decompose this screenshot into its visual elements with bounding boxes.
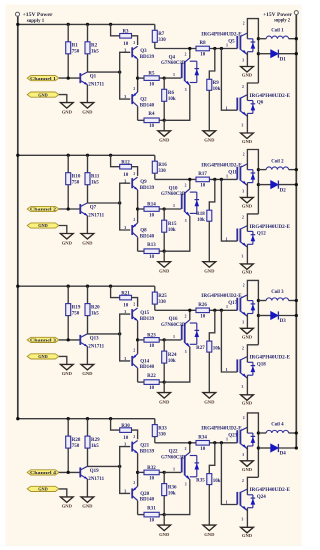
svg-text:Channel 1: Channel 1 bbox=[30, 76, 56, 81]
svg-text:D2: D2 bbox=[280, 188, 287, 193]
junction dots on +15V bus bbox=[16, 417, 112, 420]
svg-text:R13: R13 bbox=[147, 243, 156, 248]
transistor Q9 BD139 bbox=[132, 177, 154, 191]
wire source of driver igbt to ground bbox=[164, 85, 190, 120]
wire channel input to base bbox=[59, 207, 80, 210]
svg-text:750: 750 bbox=[72, 311, 80, 316]
wire gate of driver igbt bbox=[164, 467, 181, 473]
svg-text:2N1711: 2N1711 bbox=[88, 344, 104, 349]
svg-text:Q13: Q13 bbox=[90, 336, 99, 341]
svg-text:3: 3 bbox=[124, 442, 126, 447]
svg-text:Q11: Q11 bbox=[228, 170, 237, 175]
svg-text:R27: R27 bbox=[196, 346, 205, 351]
ground symbol for GND label bbox=[60, 234, 73, 246]
svg-text:Coil 4: Coil 4 bbox=[271, 423, 284, 428]
svg-text:Q15: Q15 bbox=[140, 311, 149, 316]
svg-text:R3: R3 bbox=[122, 30, 129, 35]
resistor R25 330 bbox=[152, 286, 167, 310]
svg-text:Q4: Q4 bbox=[169, 55, 176, 60]
svg-text:10: 10 bbox=[149, 255, 155, 260]
svg-text:R1: R1 bbox=[72, 44, 79, 49]
wire channel input to base bbox=[59, 76, 80, 79]
svg-text:supply 2: supply 2 bbox=[274, 18, 290, 24]
svg-text:Channel 3: Channel 3 bbox=[30, 338, 56, 343]
svg-text:BD140: BD140 bbox=[140, 103, 155, 108]
transistor Q15 BD139 bbox=[132, 308, 154, 322]
resistor R22 10 bbox=[138, 368, 166, 391]
svg-text:BD139: BD139 bbox=[140, 449, 155, 454]
svg-text:750: 750 bbox=[72, 50, 80, 55]
svg-text:750: 750 bbox=[72, 181, 80, 186]
svg-text:supply 1: supply 1 bbox=[27, 18, 45, 24]
wire to ground from R junction bbox=[163, 251, 165, 262]
wire gate line to lower igbt bbox=[221, 443, 237, 505]
svg-text:Q22: Q22 bbox=[169, 450, 178, 455]
svg-text:GND: GND bbox=[242, 533, 253, 538]
svg-text:1: 1 bbox=[226, 173, 228, 178]
svg-text:Q21: Q21 bbox=[140, 444, 149, 449]
svg-text:10k: 10k bbox=[213, 87, 221, 92]
inductor Coil 1 bbox=[258, 28, 298, 40]
svg-text:Q8: Q8 bbox=[140, 228, 147, 233]
svg-text:R22: R22 bbox=[147, 374, 156, 379]
svg-text:10: 10 bbox=[149, 82, 155, 87]
svg-text:10k: 10k bbox=[168, 97, 176, 102]
wire channel input to base bbox=[59, 471, 80, 474]
svg-text:GND: GND bbox=[38, 354, 48, 359]
svg-text:GND: GND bbox=[62, 109, 73, 114]
svg-text:10: 10 bbox=[200, 53, 206, 58]
wire collector of upper igbt bbox=[247, 19, 260, 83]
node Channel 4 input label bbox=[27, 470, 59, 475]
svg-text:GND: GND bbox=[242, 270, 253, 275]
svg-text:R30: R30 bbox=[121, 424, 130, 429]
ground symbol under lower igbt bbox=[241, 133, 254, 144]
resistor R4 10 bbox=[138, 106, 166, 129]
svg-text:2: 2 bbox=[242, 479, 244, 483]
svg-text:10: 10 bbox=[149, 124, 155, 129]
svg-text:R24: R24 bbox=[168, 353, 177, 358]
svg-text:2: 2 bbox=[133, 303, 135, 307]
svg-text:GND: GND bbox=[242, 334, 253, 339]
svg-text:2: 2 bbox=[243, 22, 245, 26]
ground symbol under gate resistor bbox=[203, 262, 216, 274]
svg-text:2: 2 bbox=[185, 184, 187, 188]
wire gate line to lower igbt bbox=[221, 310, 237, 372]
resistor R35 10k gate-emitter bbox=[196, 443, 221, 525]
svg-text:R29: R29 bbox=[91, 438, 100, 443]
svg-text:330: 330 bbox=[158, 169, 166, 174]
svg-text:750: 750 bbox=[72, 444, 80, 449]
resistor R14 10 bbox=[138, 203, 166, 219]
svg-text:R28: R28 bbox=[72, 438, 81, 443]
diode D3 bbox=[258, 311, 298, 324]
resistor R31 10 bbox=[138, 501, 166, 524]
svg-text:10: 10 bbox=[149, 519, 155, 524]
svg-text:R25: R25 bbox=[158, 294, 167, 299]
svg-text:R19: R19 bbox=[72, 305, 81, 310]
transistor Q20 BD140 bbox=[132, 481, 154, 503]
svg-text:2: 2 bbox=[133, 481, 135, 485]
svg-text:GND: GND bbox=[204, 269, 215, 274]
wire collector node of Q19 bbox=[88, 465, 122, 468]
svg-text:3: 3 bbox=[185, 88, 187, 92]
svg-text:BD140: BD140 bbox=[140, 498, 155, 503]
transistor Q1 2N1711 bbox=[80, 72, 104, 88]
transistor Q22 G7N60C3D driver IGBT bbox=[161, 447, 199, 486]
wire drain of driver igbt to gate line bbox=[189, 179, 191, 189]
svg-text:3: 3 bbox=[124, 47, 126, 52]
svg-text:Q14: Q14 bbox=[140, 359, 149, 364]
svg-text:R34: R34 bbox=[198, 435, 207, 440]
svg-text:1k5: 1k5 bbox=[91, 311, 99, 316]
svg-text:GND: GND bbox=[242, 139, 253, 144]
wire totem-pole emitters bbox=[136, 453, 139, 486]
wire emitter of upper igbt to ground bbox=[246, 183, 248, 198]
svg-text:3: 3 bbox=[124, 225, 126, 230]
resistor R9 10k gate-emitter bbox=[207, 49, 221, 131]
transistor Q3 BD139 bbox=[132, 46, 154, 60]
svg-text:2: 2 bbox=[242, 216, 244, 220]
ground symbol under upper igbt bbox=[241, 197, 254, 208]
wire totem-pole base riser bbox=[120, 447, 131, 494]
svg-text:10: 10 bbox=[123, 304, 129, 309]
ground symbol for GND label bbox=[60, 497, 73, 509]
ground symbol under resistor junction bbox=[158, 393, 171, 405]
wire gate of driver igbt bbox=[164, 203, 181, 209]
svg-text:2: 2 bbox=[133, 87, 135, 91]
svg-text:R33: R33 bbox=[158, 426, 167, 431]
wire totem-pole emitters bbox=[136, 190, 139, 223]
ground symbol under upper igbt bbox=[241, 461, 254, 472]
svg-text:GND: GND bbox=[82, 371, 93, 376]
svg-text:G7N60C3D: G7N60C3D bbox=[161, 323, 186, 328]
ground symbol under emitter bbox=[81, 103, 94, 115]
resistor R12 10 bbox=[111, 155, 138, 178]
transistor Q17 IRG4PH40UD2-E upper bbox=[201, 283, 255, 324]
wire totem-pole emitters bbox=[136, 321, 139, 354]
wire emitter of upper igbt to ground bbox=[246, 314, 248, 329]
svg-text:2: 2 bbox=[185, 314, 187, 318]
wire totem-pole emitters bbox=[136, 59, 139, 92]
svg-text:1: 1 bbox=[226, 304, 228, 309]
svg-text:R9: R9 bbox=[213, 81, 220, 86]
resistor R11 1k5 bbox=[85, 155, 100, 203]
transistor Q12 IRG4PH40UD2-E lower bbox=[226, 216, 291, 259]
wire emitter of upper igbt to ground bbox=[246, 446, 248, 461]
resistor R28 750 bbox=[66, 419, 81, 473]
wire totem-pole base riser bbox=[120, 314, 131, 361]
svg-text:3: 3 bbox=[242, 453, 244, 457]
pin 3 labels of driver transistors bbox=[124, 47, 126, 99]
svg-text:Q2: Q2 bbox=[140, 98, 147, 103]
wire collector of lower igbt bbox=[247, 214, 258, 232]
node Channel 1 input label bbox=[27, 76, 59, 81]
svg-text:2: 2 bbox=[133, 172, 135, 176]
svg-text:1k5: 1k5 bbox=[91, 50, 99, 55]
wire GND label to ground bbox=[59, 226, 67, 234]
wire emitter to ground bbox=[86, 216, 88, 234]
ground symbol under emitter bbox=[81, 234, 94, 246]
svg-text:10k: 10k bbox=[197, 218, 205, 223]
svg-text:3: 3 bbox=[242, 518, 244, 522]
junction dots on +15V bus bbox=[16, 23, 112, 26]
pin 3 labels of driver transistors bbox=[124, 178, 126, 230]
svg-text:R8: R8 bbox=[200, 41, 207, 46]
svg-text:BD140: BD140 bbox=[140, 365, 155, 370]
transistor Q24 IRG4PH40UD2-E lower bbox=[226, 479, 291, 522]
wire +15V bus channel (net row y=24) bbox=[18, 23, 155, 25]
svg-text:2: 2 bbox=[133, 41, 135, 45]
wire GND label to ground bbox=[59, 95, 67, 103]
wire gate line to lower igbt bbox=[221, 179, 237, 241]
wire collector node of Q1 bbox=[88, 70, 122, 73]
svg-text:BD139: BD139 bbox=[140, 186, 155, 191]
resistor R6 10k bbox=[162, 78, 176, 120]
ground symbol under upper igbt bbox=[241, 328, 254, 339]
ground symbol for GND label bbox=[60, 364, 73, 376]
wire gate of driver igbt bbox=[164, 334, 181, 340]
wire source of driver igbt to ground bbox=[164, 479, 190, 514]
resistor R23 10 bbox=[138, 333, 166, 349]
ground symbol under emitter bbox=[81, 364, 94, 376]
ground symbol under gate resistor bbox=[203, 131, 216, 143]
svg-text:2: 2 bbox=[133, 435, 135, 439]
resistor R36 10k bbox=[162, 472, 177, 514]
power rail left +15V supply 1 bbox=[17, 16, 19, 419]
wire collector of upper igbt bbox=[247, 280, 260, 344]
wire emitter of lower igbt to ground bbox=[246, 508, 248, 528]
svg-text:BD139: BD139 bbox=[140, 317, 155, 322]
wire gate of driver igbt bbox=[164, 72, 181, 78]
svg-text:G7N60C3D: G7N60C3D bbox=[161, 61, 186, 66]
svg-text:R6: R6 bbox=[168, 91, 175, 96]
wire emitter to ground bbox=[86, 85, 88, 103]
wire collector of upper igbt bbox=[247, 150, 260, 214]
svg-text:10k: 10k bbox=[168, 492, 176, 497]
wire emitter of lower igbt to ground bbox=[246, 113, 248, 133]
svg-text:10: 10 bbox=[149, 213, 155, 218]
svg-text:R16: R16 bbox=[158, 163, 167, 168]
ground symbol under emitter bbox=[81, 497, 94, 509]
resistor R21 10 bbox=[111, 286, 138, 309]
svg-text:IRG4PH40UD2-E: IRG4PH40UD2-E bbox=[201, 427, 242, 432]
svg-text:IRG4PH40UD2-E: IRG4PH40UD2-E bbox=[201, 32, 242, 37]
svg-text:Q7: Q7 bbox=[90, 206, 97, 211]
resistor R5 10 bbox=[138, 72, 166, 88]
wire emitter of lower igbt to ground bbox=[246, 244, 248, 264]
resistor R29 1k5 bbox=[85, 419, 100, 467]
transistor Q19 2N1711 bbox=[80, 466, 104, 482]
svg-text:1k5: 1k5 bbox=[91, 444, 99, 449]
wire collector of lower igbt bbox=[247, 477, 258, 495]
resistor R33 330 bbox=[152, 419, 167, 443]
svg-text:330: 330 bbox=[158, 300, 166, 305]
svg-text:G7N60C3D: G7N60C3D bbox=[161, 192, 186, 197]
svg-text:G7N60C3D: G7N60C3D bbox=[161, 455, 186, 460]
svg-text:IRG4PH40UD2-E: IRG4PH40UD2-E bbox=[201, 163, 242, 168]
svg-text:R11: R11 bbox=[91, 175, 100, 180]
svg-text:2N1711: 2N1711 bbox=[88, 83, 104, 88]
node GND input label bbox=[27, 486, 59, 491]
svg-text:330: 330 bbox=[158, 38, 166, 43]
power rail right +15V supply 2 bbox=[295, 15, 297, 448]
svg-text:Q18: Q18 bbox=[257, 363, 266, 368]
svg-text:D3: D3 bbox=[280, 319, 287, 324]
wire drain of driver igbt to gate line bbox=[189, 443, 191, 453]
svg-text:R7: R7 bbox=[158, 32, 165, 37]
wire source of driver igbt to ground bbox=[164, 216, 190, 251]
wire totem-pole base riser bbox=[120, 183, 131, 230]
resistor R13 10 bbox=[138, 237, 166, 260]
ground symbol under gate resistor bbox=[203, 525, 216, 537]
wire to ground from R junction bbox=[163, 382, 165, 393]
svg-text:GND: GND bbox=[38, 92, 48, 97]
svg-text:10: 10 bbox=[123, 436, 129, 441]
terminal circle +15V supply 2 bbox=[294, 11, 298, 15]
svg-text:1: 1 bbox=[173, 203, 175, 208]
transistor Q18 IRG4PH40UD2-E lower bbox=[226, 347, 291, 390]
svg-text:R20: R20 bbox=[91, 305, 100, 310]
wire gate line to lower igbt bbox=[221, 49, 237, 111]
svg-text:IRG4PH40UD2-E: IRG4PH40UD2-E bbox=[250, 488, 291, 493]
svg-text:GND: GND bbox=[159, 138, 170, 143]
transistor Q11 IRG4PH40UD2-E upper bbox=[201, 153, 255, 194]
svg-text:Q5: Q5 bbox=[228, 39, 235, 44]
svg-text:10: 10 bbox=[149, 477, 155, 482]
node GND input label bbox=[27, 92, 59, 97]
svg-text:2: 2 bbox=[185, 53, 187, 57]
svg-text:10k: 10k bbox=[213, 479, 221, 484]
svg-text:GND: GND bbox=[204, 532, 215, 537]
wire +15V bus channel (net row y=155) bbox=[18, 154, 155, 156]
svg-text:+15V Power: +15V Power bbox=[23, 12, 54, 18]
svg-text:1: 1 bbox=[173, 467, 175, 472]
svg-text:R18: R18 bbox=[196, 212, 205, 217]
ground symbol under gate resistor bbox=[203, 393, 216, 405]
svg-text:GND: GND bbox=[159, 269, 170, 274]
resistor R17 10 bbox=[196, 172, 209, 189]
wire drain of driver igbt to gate line bbox=[189, 310, 191, 320]
svg-text:10k: 10k bbox=[168, 228, 176, 233]
inductor Coil 4 bbox=[258, 423, 298, 435]
pin 3 labels of driver transistors bbox=[124, 309, 126, 361]
wire GND label to ground bbox=[59, 489, 67, 497]
svg-text:2N1711: 2N1711 bbox=[88, 477, 104, 482]
label +15V Power supply 1 bbox=[23, 12, 54, 24]
svg-text:2: 2 bbox=[243, 416, 245, 420]
wire emitter to ground bbox=[86, 479, 88, 497]
svg-text:3: 3 bbox=[242, 385, 244, 389]
svg-text:GND: GND bbox=[204, 138, 215, 143]
wire gate drive line bbox=[155, 47, 238, 50]
svg-text:Q3: Q3 bbox=[140, 49, 147, 54]
svg-text:D4: D4 bbox=[280, 452, 287, 457]
svg-text:Coil 3: Coil 3 bbox=[271, 290, 284, 295]
resistor R19 750 bbox=[66, 286, 81, 340]
svg-text:10: 10 bbox=[200, 447, 206, 452]
svg-text:2: 2 bbox=[243, 153, 245, 157]
node GND input label bbox=[27, 354, 59, 359]
transistor Q16 G7N60C3D driver IGBT bbox=[161, 314, 199, 353]
svg-text:Coil 1: Coil 1 bbox=[271, 28, 284, 33]
transistor Q13 2N1711 bbox=[80, 334, 104, 350]
wire gate drive line bbox=[155, 309, 238, 312]
resistor R1 750 bbox=[66, 24, 80, 78]
svg-text:330: 330 bbox=[158, 432, 166, 437]
svg-text:Q12: Q12 bbox=[257, 232, 266, 237]
wire to ground from R junction bbox=[163, 515, 165, 526]
wire collector node of Q7 bbox=[88, 201, 122, 204]
svg-text:GND: GND bbox=[159, 399, 170, 404]
svg-text:R12: R12 bbox=[121, 161, 130, 166]
transistor Q7 2N1711 bbox=[80, 203, 104, 219]
wire source of driver igbt to ground bbox=[164, 347, 190, 382]
svg-text:2: 2 bbox=[133, 218, 135, 222]
transistor Q21 BD139 bbox=[132, 441, 154, 455]
transistor Q2 BD140 bbox=[132, 87, 154, 109]
resistor R18 10k gate-emitter bbox=[196, 179, 215, 261]
ground symbol under upper igbt bbox=[241, 67, 254, 78]
svg-text:2: 2 bbox=[185, 447, 187, 451]
resistor R26 10 bbox=[196, 303, 209, 320]
resistor R8 10 bbox=[196, 41, 209, 58]
svg-text:Channel 2: Channel 2 bbox=[30, 207, 56, 212]
transistor Q14 BD140 bbox=[132, 349, 154, 371]
svg-text:GND: GND bbox=[62, 504, 73, 509]
svg-text:R4: R4 bbox=[148, 112, 155, 117]
svg-text:2: 2 bbox=[243, 283, 245, 287]
svg-text:R17: R17 bbox=[198, 172, 207, 177]
svg-text:R32: R32 bbox=[147, 466, 156, 471]
svg-text:GND: GND bbox=[62, 371, 73, 376]
svg-text:R14: R14 bbox=[147, 203, 156, 208]
transistor Q5 IRG4PH40UD2-E upper bbox=[201, 22, 255, 63]
diode D1 bbox=[258, 50, 298, 63]
svg-text:10k: 10k bbox=[213, 347, 221, 352]
svg-text:R26: R26 bbox=[198, 303, 207, 308]
ground symbol under lower igbt bbox=[241, 527, 254, 538]
svg-text:Channel 4: Channel 4 bbox=[30, 470, 57, 475]
wire drain of driver igbt to gate line bbox=[189, 49, 191, 59]
svg-text:GND: GND bbox=[38, 487, 48, 492]
resistor R30 10 bbox=[111, 419, 138, 442]
wire +15V bus channel (net row y=286) bbox=[18, 285, 155, 287]
svg-text:3: 3 bbox=[124, 489, 126, 494]
diode D4 bbox=[258, 444, 298, 457]
svg-text:Q20: Q20 bbox=[140, 492, 149, 497]
junction dots on +15V bus bbox=[16, 154, 112, 157]
svg-text:3: 3 bbox=[185, 219, 187, 223]
svg-text:2: 2 bbox=[242, 347, 244, 351]
resistor R16 330 bbox=[152, 155, 167, 179]
svg-text:Q24: Q24 bbox=[257, 495, 266, 500]
svg-text:GND: GND bbox=[242, 401, 253, 406]
svg-text:10: 10 bbox=[149, 386, 155, 391]
svg-text:GND: GND bbox=[242, 467, 253, 472]
wire collector node of Q13 bbox=[88, 332, 122, 335]
svg-text:3: 3 bbox=[242, 254, 244, 258]
svg-text:R15: R15 bbox=[168, 222, 177, 227]
ground symbol under resistor junction bbox=[158, 262, 171, 274]
resistor R10 750 bbox=[66, 155, 81, 209]
svg-text:3: 3 bbox=[124, 356, 126, 361]
resistor R24 10k bbox=[162, 340, 177, 382]
svg-text:R35: R35 bbox=[196, 478, 205, 483]
svg-text:IRG4PH40UD2-E: IRG4PH40UD2-E bbox=[201, 294, 242, 299]
node GND input label bbox=[27, 223, 59, 228]
wire emitter of lower igbt to ground bbox=[246, 375, 248, 395]
